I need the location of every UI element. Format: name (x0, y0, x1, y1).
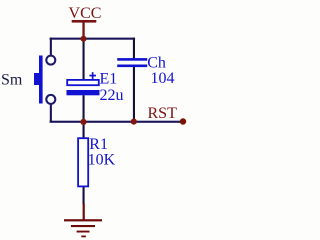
svg-text:VCC: VCC (69, 5, 102, 22)
svg-text:10K: 10K (88, 152, 116, 169)
svg-text:22u: 22u (100, 87, 124, 104)
resistor R1 (78, 138, 88, 186)
wire left vertical upper (50, 38, 52, 56)
svg-text:Sm: Sm (1, 72, 23, 89)
junction dot bottom (E1/R1) (80, 119, 86, 125)
wire top horizontal (50, 38, 136, 40)
svg-text:RST: RST (148, 105, 178, 122)
svg-text:104: 104 (151, 70, 175, 87)
wire left vertical lower (50, 104, 52, 122)
wire R1 lower (83, 187, 85, 205)
wire bottom horizontal (50, 121, 183, 123)
svg-text:R1: R1 (89, 136, 108, 153)
wire R1 upper (83, 122, 85, 138)
node RST terminal dot (180, 118, 186, 124)
svg-text:Ch: Ch (147, 55, 166, 72)
switch Sm (34, 56, 55, 104)
junction dot top (VCC/E1) (81, 36, 87, 42)
wire Ch upper (133, 38, 135, 60)
ground (64, 204, 102, 238)
capacitor E1 (electrolytic) (67, 72, 100, 95)
capacitor Ch (117, 58, 147, 67)
wire E1 upper (83, 39, 85, 81)
junction dot Ch bottom (131, 119, 137, 125)
wire Ch lower (133, 67, 135, 122)
wire E1 lower (83, 95, 85, 122)
power symbol VCC (69, 5, 102, 39)
svg-text:E1: E1 (100, 71, 118, 88)
